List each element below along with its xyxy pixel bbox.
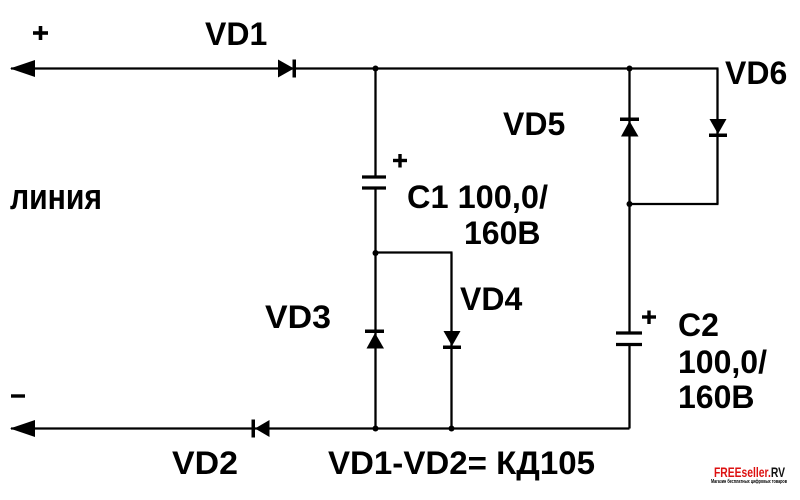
wire: top line (+) from left arrow to right corner xyxy=(11,67,719,69)
wire: right vertical drop (VD6 branch) xyxy=(716,69,718,205)
capacitor C2 plates xyxy=(616,333,642,345)
node: junction VD5 branch / middle horizontal xyxy=(627,201,633,207)
svg-text:VD5: VD5 xyxy=(503,106,565,142)
svg-text:VD4: VD4 xyxy=(460,281,522,317)
label - (bottom left terminal) xyxy=(11,394,25,397)
wire: middle horizontal connecting VD5 branch to VD6 branch xyxy=(630,203,719,205)
node: junction bottom line / VD3 branch xyxy=(373,426,379,432)
svg-text:VD3: VD3 xyxy=(265,299,331,335)
diode VD1 (on top wire, pointing right) xyxy=(278,60,296,78)
svg-text:100,0/: 100,0/ xyxy=(678,344,767,380)
svg-text:VD6: VD6 xyxy=(725,55,787,91)
arrow: left arrowhead on top line xyxy=(10,60,35,77)
node: junction bottom line / VD4 branch xyxy=(449,426,455,432)
wire: VD5/C2 vertical upper segment xyxy=(628,69,630,332)
label + (top left terminal) xyxy=(33,26,48,40)
diode VD3 (pointing up, cathode bar on top) xyxy=(365,330,384,349)
node: junction of top wire and VD5 branch xyxy=(627,66,633,72)
svg-text:160В: 160В xyxy=(464,215,541,251)
svg-text:FREEseller.RV: FREEseller.RV xyxy=(714,464,785,480)
svg-text:VD1-VD2= КД105: VD1-VD2= КД105 xyxy=(328,445,595,481)
wire: VD4 vertical branch xyxy=(450,253,452,429)
diode VD2 (on bottom wire, pointing left) xyxy=(252,420,270,438)
wire: bottom line (-) from left arrow to C2 branch xyxy=(11,427,630,429)
wire: C1 branch vertical lower segment through VD3 to bottom line xyxy=(374,190,376,429)
svg-text:C1 100,0/: C1 100,0/ xyxy=(407,179,548,215)
arrow: left arrowhead on bottom line xyxy=(10,420,35,437)
svg-text:линия: линия xyxy=(10,176,102,217)
diode VD4 (pointing down, cathode bar below) xyxy=(443,331,461,349)
svg-text:Магазин бесплатных цифровых то: Магазин бесплатных цифровых товаров xyxy=(711,478,787,485)
label + (C2 polarity) xyxy=(642,311,656,325)
label + (C1 polarity) xyxy=(393,154,407,168)
diode VD5 (pointing up, cathode bar on top) xyxy=(620,118,639,137)
svg-text:VD2: VD2 xyxy=(172,445,238,481)
diode VD6 (pointing down, cathode bar below) xyxy=(709,119,727,137)
node: junction of top wire and C1 branch xyxy=(373,66,379,72)
svg-text:VD1: VD1 xyxy=(205,16,267,52)
svg-text:C2: C2 xyxy=(678,307,719,343)
capacitor C1 plates xyxy=(362,177,386,188)
svg-text:160В: 160В xyxy=(678,379,755,415)
wire: C1 branch vertical upper segment xyxy=(374,69,376,176)
wire: C2 vertical lower segment to bottom line xyxy=(628,346,630,429)
wire: horizontal from C1 branch to VD4 branch xyxy=(376,251,453,253)
node: junction C1 branch / VD4 horizontal xyxy=(373,250,379,256)
